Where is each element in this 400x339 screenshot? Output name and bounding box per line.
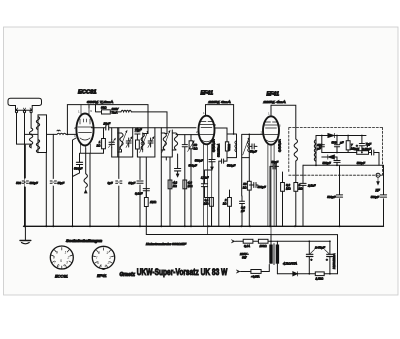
svg-text:0M4: 0M4 [354,147,360,151]
paper area [4,27,399,295]
svg-text:500pF: 500pF [30,181,38,185]
capacitor C19 3n3 [240,196,245,209]
capacitor C21 300pF [319,136,324,153]
wire det down right [383,166,385,227]
svg-text:30pF: 30pF [135,128,142,132]
svg-text:MΩ: MΩ [204,202,209,206]
capacitor C15 [209,145,215,162]
svg-text:100Ω: 100Ω [260,244,268,248]
svg-text:5: 5 [100,264,102,268]
svg-text:4,7kΩ/STA: 4,7kΩ/STA [283,262,297,266]
capacitor C14 500uF inline [219,158,227,227]
svg-text:7mA: 7mA [112,111,118,115]
resistor R10 50k [247,181,251,190]
resistor R14 horizontal [357,151,369,155]
fuse F2 0,05A [251,270,261,274]
wire grid lead with choke [47,133,77,134]
wire vert x191 [190,135,192,227]
wire anode V1a [88,105,90,108]
svg-text:500: 500 [332,141,337,145]
svg-text:9W: 9W [242,256,247,260]
svg-text:220V, 4mA: 220V, 4mA [262,100,286,104]
capacitor C20 50p [270,164,279,169]
junction grid V3 [248,134,250,136]
svg-text:MΩ: MΩ [286,187,291,191]
junction tap [30,134,32,136]
junction B+ tank1 [233,133,235,135]
svg-text:pF: pF [339,141,344,145]
svg-text:500pF: 500pF [357,161,365,165]
wire vert x72.5 cathode [73,138,77,226]
wire vert x270 [269,166,271,226]
box below V1 [80,149,103,154]
svg-text:8: 8 [98,251,100,255]
wire PSU junctions [270,240,331,274]
socket EF41 [92,246,114,269]
tube V1 internals [78,105,92,154]
svg-text:1: 1 [106,251,108,255]
svg-text:0,25nF: 0,25nF [362,147,371,151]
svg-text:500µF: 500µF [327,195,335,199]
wire R7 conn [205,198,212,227]
capacitor C2 50p inline [50,180,56,186]
svg-text:nF: nF [241,209,245,213]
svg-text:2×50µF: 2×50µF [314,246,325,250]
svg-text:5: 5 [60,259,62,263]
ratio detector secondary L12b [314,136,316,166]
svg-text:ECC81: ECC81 [55,274,68,279]
wire vert x140 down [139,185,141,226]
heater line [146,226,271,234]
coil L8 [161,133,166,150]
svg-text:4: 4 [63,264,65,268]
svg-text:6pF: 6pF [108,181,113,185]
resistor R15 100R [258,239,268,243]
wire tank bottoms [119,128,155,198]
svg-text:500µF: 500µF [74,167,82,171]
transformer box T [38,115,47,153]
choke L4 [121,110,131,112]
capacitor C3 500uF bypass [73,153,83,176]
capacitor C22 [334,136,339,153]
wire vert x90 [89,153,91,226]
svg-text:50kΩ: 50kΩ [227,144,231,150]
svg-text:2,5nF: 2,5nF [307,184,316,188]
svg-text:3: 3 [108,261,110,265]
ground symbol [20,226,31,244]
capacitor C27 [380,195,386,197]
svg-text:Graetz: Graetz [120,272,136,278]
wire det bottom row [303,164,384,166]
svg-text:EF41: EF41 [267,92,280,98]
trimmer C8 [148,138,153,147]
wire antenna right lead [30,113,32,128]
wire vert x212 sg [211,162,213,170]
wire det down left [339,166,341,227]
svg-text:Sockelschaltungen: Sockelschaltungen [66,239,102,243]
wire vert x177.6 agc tap [177,154,179,174]
svg-text:≈0,05A: ≈0,05A [251,275,259,279]
wire det mid row [322,153,379,166]
wire 30R row [96,105,168,134]
capacitor C26 [336,195,342,197]
wire vert x103.5 [103,128,105,139]
wire det top row [316,135,366,137]
wire tank row y157 [112,156,119,158]
wire vert x241.7 down [241,158,243,227]
rectifier D3 [293,272,298,276]
wire vert x53.3 [52,134,54,226]
svg-text:50pF: 50pF [250,150,257,154]
svg-text:3: 3 [66,261,68,265]
resistor R6 [189,141,193,149]
wire anode row V1 [92,127,197,129]
wire vert x146.3 down [145,207,147,227]
resistor R8 2k [228,198,232,207]
svg-text:500µF: 500µF [227,164,235,168]
capacitor C18 50p grid [249,144,257,149]
svg-text:6,3V/0,2A: 6,3V/0,2A [278,139,282,152]
svg-text:+: + [326,258,328,262]
wire grid V3 row [249,133,262,135]
svg-text:500µF: 500µF [371,195,379,199]
wire vert x24.5 [24,145,26,226]
tank2 T3 secondary [242,134,250,157]
wire det tap down [302,165,304,226]
fuse F1 [243,239,253,243]
wire anode V2 row [215,128,228,134]
resistor R5 [183,180,187,189]
svg-text:500: 500 [16,181,21,185]
text V1 pin numbers [74,109,95,141]
capacitor C16 1n5 [201,184,207,187]
wire vert x276.3 [275,163,277,226]
diode D1 [328,133,335,137]
wire V2 top [206,105,234,134]
svg-text:50pF: 50pF [58,181,65,185]
wire tap row [25,133,39,135]
svg-text:1MΩ: 1MΩ [150,200,157,204]
wire vert x118.8 down [118,157,120,226]
capacitor C7 inline top [135,132,140,134]
ratio detector primary L12a [294,139,297,161]
svg-text:EF41: EF41 [97,273,107,278]
resistor R1 30R [102,110,111,114]
svg-text:pF: pF [316,146,321,150]
capacitor C29 50uF [327,241,334,273]
trimmer C6 [126,138,131,147]
junction dots bus [24,225,341,227]
resistor R17 [315,272,324,276]
svg-text:9: 9 [56,251,58,255]
svg-text:UKW-Super-Vorsatz UK 83 W: UKW-Super-Vorsatz UK 83 W [137,267,228,277]
tube V1 ECC81 envelope [76,114,93,146]
mains plug prong 2 [237,270,242,273]
wire vert x184.8 [184,135,186,227]
resistor R11 0,2M [281,183,285,192]
coil L5 oscillator variable [84,148,87,193]
svg-text:500µF: 500µF [189,164,197,168]
arrow var L7 [140,131,149,153]
svg-text:7: 7 [96,256,98,260]
capacitor C4 20p inline [106,126,109,130]
wire conn tank1 [111,128,113,157]
svg-text:600V, 7,1mA: 600V, 7,1mA [87,100,113,104]
tube V3 EF41 envelope [263,116,279,144]
svg-text:EF41: EF41 [201,91,214,97]
wire vert x46.3 [45,153,47,227]
wire vert x170 down [166,157,170,226]
svg-text:DM30/22mA: DM30/22mA [332,253,336,269]
arrow agc2 [176,174,179,177]
capacitor C13 500uF [175,169,181,171]
resistor R3 1M [144,198,148,207]
resistor R12 2k [294,183,298,192]
arrow R6 preset [188,141,195,152]
wire psu outer right [271,235,337,274]
dashed detector box [289,128,383,176]
svg-text:Heizstromkreis: 300Ω/1F: Heizstromkreis: 300Ω/1F [146,242,186,246]
transformer TR1 core [273,244,276,265]
capacitor C9 6p inline [116,180,122,186]
wire R8 conn [229,190,231,226]
capacitor C28 50uF [306,241,313,273]
wire R13 conn [347,136,349,153]
wire V3 top [271,105,296,139]
svg-text:500pF: 500pF [323,161,331,165]
coil L9 [172,133,177,150]
svg-text:50pF: 50pF [272,160,279,164]
arrow var L6 [119,131,128,153]
wire B+ top rail [67,105,148,135]
tank1 T3 primary [225,134,236,158]
mains plug prong 1 [232,240,237,243]
coil L7 [141,133,144,152]
capacitor C10 30p inline [137,181,143,183]
svg-text:220V, 6mA: 220V, 6mA [207,100,231,104]
capacitor C12 [182,145,187,147]
svg-text:50kΩ/10mA: 50kΩ/10mA [218,144,221,157]
svg-text:4: 4 [105,264,107,268]
wire vert x204.5 [205,170,213,198]
wire psu bottom rail [277,273,337,275]
svg-text:2: 2 [108,256,111,260]
wire vert x249.3 [248,158,250,227]
capacitor C24 [372,150,374,155]
coil L1 input [29,128,32,148]
capacitor C23 7uF [359,136,364,153]
wire mixer input squiggle [57,129,60,132]
arrow var L8 [162,131,170,153]
text V2 pins [196,111,217,134]
band filter T1 tank A [118,128,133,157]
svg-text:1: 1 [65,251,67,255]
svg-text:+: + [311,258,313,262]
svg-text:2: 2 [67,256,70,260]
svg-text:500µF: 500µF [195,159,203,163]
text V3 pins [261,112,282,135]
wire R12 conn [295,161,297,226]
resistor R13 [346,141,350,150]
wire grid V2 [176,134,198,136]
coil L2b [36,140,39,153]
junction grid feed [67,134,69,136]
svg-text:6: 6 [58,264,60,268]
capacitor C11 3n3 inline [143,189,149,198]
wire antenna left lead [17,113,32,144]
svg-text:8: 8 [53,256,55,260]
svg-text:500pF: 500pF [258,185,266,189]
transformer TR1 primary bar [269,245,272,264]
wire mains bottom row [241,265,269,272]
wire det junction dots [315,135,363,167]
tube V2 EF41 envelope [199,116,215,145]
svg-text:ECC81: ECC81 [78,90,97,96]
wire antenna mid lead [24,113,26,227]
ground bus [24,225,384,227]
capacitor C17 [249,183,258,188]
socket ECC81 [50,246,73,269]
trimmer C5 [109,138,116,147]
resistor R7 0,1M [210,198,214,207]
svg-text:0,1A: 0,1A [244,244,250,248]
diode D2 [322,155,337,159]
antenna dipole [8,98,42,113]
wire mains top row [236,240,329,242]
IF transformer T2 [161,128,177,157]
capacitor C1 500p inline [22,179,28,186]
wire vert x161.3 down [160,157,162,226]
svg-text:3,3nF: 3,3nF [135,192,143,196]
wire TR1 leads [271,235,277,274]
band filter T1 tank B [136,128,155,157]
arrow dn [211,167,214,170]
resistor R2 [102,139,106,149]
svg-text:1,5nF: 1,5nF [201,176,209,180]
coil L2a [36,117,39,130]
svg-text:30Ω: 30Ω [101,106,107,110]
coil L6 [120,133,123,152]
resistor R4 [168,180,172,189]
capacitor C25 inline [334,157,340,165]
svg-text:7: 7 [54,261,56,265]
capacitor C30 15nF [300,183,306,185]
wire R11 conn [282,172,284,226]
svg-text:6: 6 [97,261,99,265]
svg-text:30pF: 30pF [129,181,136,185]
wire box to x53.3 [45,152,47,154]
tube V2 internals [200,122,214,235]
NF connector [376,173,380,185]
transformer TR1 secondary bar [276,245,279,264]
svg-text:20pF: 20pF [103,122,111,126]
tube V3 internals [265,122,279,235]
svg-text:1,3kΩ: 1,3kΩ [316,276,324,280]
